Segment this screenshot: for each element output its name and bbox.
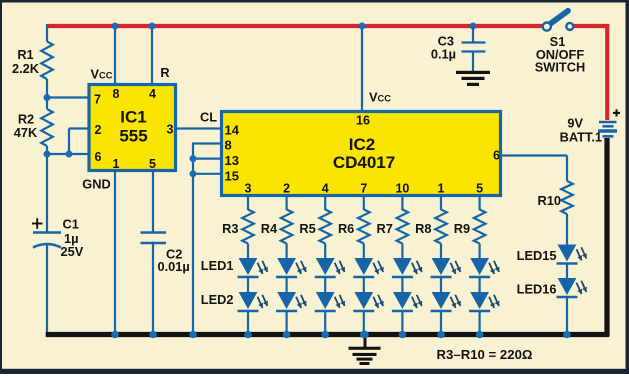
- svg-text:8: 8: [113, 87, 120, 101]
- label R6: [338, 221, 354, 236]
- wire LED16 to ground bus: [566, 297, 568, 334]
- node junction ground symbol: [361, 331, 369, 339]
- node junction pin8 on red rail: [112, 23, 119, 30]
- svg-text:1: 1: [438, 182, 445, 196]
- LED row1 col3: [315, 258, 345, 277]
- wire ground bus (black): [46, 332, 609, 337]
- label ON/OFF: [536, 47, 585, 62]
- LED row1 col4: [353, 258, 383, 277]
- wire left rail top (red rail to R1): [46, 24, 48, 42]
- resistor R1: [41, 42, 53, 80]
- capacitor C1 plus sign: [32, 218, 43, 229]
- svg-text:25V: 25V: [61, 244, 84, 259]
- pin 6 number: [95, 150, 102, 164]
- wire LED row1 to LED row2 col5: [401, 277, 403, 293]
- wire pin 3 of IC1 to pin 14 of IC2 (CL): [175, 127, 222, 129]
- svg-text:R9: R9: [454, 221, 470, 236]
- wire pin 15 of IC2 stub: [193, 173, 222, 175]
- svg-text:CD4017: CD4017: [333, 153, 395, 172]
- wire R6 to LED row1: [363, 244, 365, 260]
- label R9: [454, 221, 470, 236]
- label R1 value: [12, 47, 40, 76]
- node junction on ground bus x=248: [244, 331, 252, 339]
- node junction pin16 on red rail: [359, 23, 366, 30]
- node junction on ground bus x=441: [437, 331, 445, 339]
- wire IC2 pin 7 to R6: [363, 195, 365, 210]
- resistor R10: [561, 181, 573, 214]
- resistor R2: [41, 109, 53, 146]
- wire pin 2 of IC1: [69, 129, 88, 156]
- LED15: [557, 245, 587, 264]
- node junction R1/R2/pin7: [44, 94, 51, 101]
- resistor R3: [242, 210, 254, 244]
- pin 2 number: [95, 123, 102, 137]
- label 555: [119, 127, 147, 146]
- svg-text:R5: R5: [299, 221, 315, 236]
- wire battery negative to ground bus (black): [604, 138, 609, 337]
- svg-text:4: 4: [149, 87, 156, 101]
- LED row2 col1: [238, 292, 268, 311]
- svg-text:5: 5: [149, 157, 156, 171]
- wire IC2 pin 5 to R9: [479, 195, 481, 210]
- LED row2 col2: [276, 292, 306, 311]
- pin 16 number: [356, 114, 370, 128]
- node junction on ground bus x=115: [111, 331, 119, 339]
- svg-text:CL: CL: [200, 110, 217, 125]
- label R3-R10 = 220 ohm: [437, 347, 533, 362]
- LED row1 col7: [469, 258, 499, 277]
- node junction on ground bus x=153: [149, 331, 157, 339]
- label 9V: [567, 116, 583, 131]
- pin 5 number: [149, 157, 156, 171]
- resistor R8: [435, 210, 447, 244]
- LED row1 col2: [276, 258, 306, 277]
- wire +V red top rail (left of S1): [47, 24, 543, 28]
- pin 3 number IC2 bottom: [245, 182, 252, 196]
- wire LED row2 to ground bus col3: [324, 311, 326, 334]
- wire LED row2 to ground bus col2: [286, 311, 288, 334]
- pin 3 number: [167, 123, 174, 137]
- node junction pin2 wire on pin6 wire: [66, 151, 73, 158]
- wire +V red rail (S1 to battery corner): [574, 24, 610, 120]
- node junction C3 on red rail: [470, 23, 477, 30]
- svg-text:4: 4: [322, 182, 329, 196]
- svg-text:9V: 9V: [567, 116, 583, 131]
- label LED2: [201, 292, 234, 307]
- label C1 value: [61, 217, 84, 260]
- LED row2 col7: [469, 292, 499, 311]
- pin 1 number: [113, 157, 120, 171]
- wire LED row2 to ground bus col6: [440, 311, 442, 334]
- op-amp IC2 CD4017 box: [222, 112, 501, 196]
- svg-text:R8: R8: [415, 221, 431, 236]
- wire LED row1 to LED row2 col3: [324, 277, 326, 293]
- svg-text:7: 7: [94, 93, 101, 107]
- svg-text:15: 15: [225, 169, 239, 184]
- wire LED row2 to ground bus col4: [363, 311, 365, 334]
- node junction on ground bus x=286.6: [283, 331, 291, 339]
- svg-text:1: 1: [113, 157, 120, 171]
- svg-text:555: 555: [119, 127, 147, 146]
- svg-text:LED16: LED16: [517, 282, 557, 297]
- LED16: [557, 278, 587, 297]
- resistor R5: [319, 210, 331, 244]
- svg-text:3: 3: [245, 182, 252, 196]
- capacitor C1: [33, 233, 61, 248]
- wire IC2 pin 10 to R7: [401, 195, 403, 210]
- svg-text:6: 6: [493, 149, 500, 163]
- pin 6 number IC2: [493, 149, 500, 163]
- label IC2: [349, 135, 375, 154]
- label R10: [538, 193, 561, 208]
- pin 13 number: [225, 153, 239, 168]
- LED row2 col5: [392, 292, 422, 311]
- wire R8 to LED row1: [440, 244, 442, 260]
- wire R1 bottom to R2 top: [46, 79, 48, 109]
- svg-text:R: R: [160, 65, 169, 80]
- resistor R6: [358, 210, 370, 244]
- LED row1 col6: [431, 258, 461, 277]
- label R reset IC1: [160, 65, 169, 80]
- label R5: [299, 221, 315, 236]
- wire C3 to ground symbol: [472, 52, 474, 72]
- op-amp IC1 555 box: [89, 85, 176, 171]
- resistor R7: [397, 210, 409, 244]
- battery BATT.1 plus sign: [613, 109, 620, 116]
- battery BATT.1: [598, 122, 617, 136]
- svg-text:14: 14: [225, 123, 240, 138]
- label LED16: [517, 282, 557, 297]
- LED row2 col3: [315, 292, 345, 311]
- svg-text:16: 16: [356, 114, 370, 128]
- wire C1 to ground bus: [46, 245, 48, 334]
- svg-text:IC2: IC2: [349, 135, 375, 154]
- svg-text:R1: R1: [17, 47, 33, 62]
- wire IC2 pin 2 to R4: [286, 195, 288, 210]
- node junction R2/pin6/C1: [44, 151, 51, 158]
- capacitor C3: [462, 43, 486, 52]
- wire LED15 to LED16: [566, 264, 568, 280]
- node junction pin4 on red rail: [149, 23, 156, 30]
- wire pin 16 stub to red rail: [361, 26, 363, 112]
- label R7: [377, 221, 393, 236]
- wire LED row1 to LED row2 col6: [440, 277, 442, 293]
- svg-text:LED15: LED15: [517, 248, 557, 263]
- wire R3 to LED row1: [247, 244, 249, 260]
- pin 8 number IC2: [225, 138, 232, 153]
- svg-text:5: 5: [476, 182, 483, 196]
- svg-text:3: 3: [167, 123, 174, 137]
- capacitor C2: [141, 233, 167, 244]
- wire LED row1 to LED row2 col7: [479, 277, 481, 293]
- label C2 value: [158, 247, 190, 275]
- node junction on ground bus x=193: [189, 331, 197, 339]
- wire LED row1 to LED row2 col1: [247, 277, 249, 293]
- label SWITCH: [535, 60, 585, 75]
- svg-text:R10: R10: [538, 193, 561, 208]
- wire pin 6 of IC1: [47, 153, 88, 155]
- pin 4 number IC2 bottom: [322, 182, 329, 196]
- svg-text:8: 8: [225, 138, 232, 153]
- LED row2 col6: [431, 292, 461, 311]
- wire LED row1 to LED row2 col2: [286, 277, 288, 293]
- wire pin 6 of IC2 to R10: [499, 156, 567, 182]
- svg-text:LED2: LED2: [201, 292, 234, 307]
- svg-text:SWITCH: SWITCH: [535, 60, 585, 75]
- label R2 value: [14, 111, 38, 139]
- label GND: [82, 177, 110, 192]
- svg-text:2: 2: [95, 123, 102, 137]
- label S1: [550, 34, 566, 49]
- node junction on ground bus x=325.2: [321, 331, 329, 339]
- label BATT.1: [560, 130, 602, 145]
- node junction on ground bus x=479.6: [476, 331, 484, 339]
- svg-text:BATT.1: BATT.1: [560, 130, 602, 145]
- pin 15 number: [225, 169, 239, 184]
- wire IC2 pin 1 to R8: [440, 195, 442, 210]
- label Vcc IC1: [91, 67, 113, 82]
- svg-text:R6: R6: [338, 221, 354, 236]
- ground (top, at C3): [456, 71, 490, 86]
- switch S1: [543, 11, 574, 31]
- wire LED row2 to ground bus col5: [401, 311, 403, 334]
- wire pin 7 of IC1: [47, 96, 88, 98]
- node junction on ground bus x=363.8: [360, 331, 368, 339]
- wire R7 to LED row1: [401, 244, 403, 260]
- pin 4 number: [149, 87, 156, 101]
- svg-text:0.1µ: 0.1µ: [431, 47, 456, 62]
- wire LED row2 to ground bus col1: [247, 311, 249, 334]
- label LED1: [201, 258, 234, 273]
- pin 10 number IC2 bottom: [395, 182, 409, 196]
- node junction pin13: [190, 155, 197, 162]
- wire pin 13 of IC2 stub: [193, 158, 222, 160]
- node junction on ground bus x=402.4: [399, 331, 407, 339]
- label C3 value: [431, 34, 456, 62]
- wire R9 to LED row1: [479, 244, 481, 260]
- svg-text:6: 6: [95, 150, 102, 164]
- wire R2 bottom to C1: [46, 146, 48, 233]
- resistor R9: [474, 210, 486, 244]
- wire R10 to LED15: [566, 214, 568, 245]
- wire pins 8/13/15 common to ground bus: [192, 143, 194, 335]
- wire IC2 pin 4 to R5: [324, 195, 326, 210]
- label R8: [415, 221, 431, 236]
- pin 7 number: [94, 93, 101, 107]
- pin 2 number IC2 bottom: [283, 182, 290, 196]
- wire pin 8 of IC2 stub: [193, 142, 222, 144]
- svg-text:7: 7: [360, 182, 367, 196]
- wire pin 8 stub to red rail: [114, 26, 116, 85]
- svg-text:2: 2: [283, 182, 290, 196]
- wire R4 to LED row1: [286, 244, 288, 260]
- wire C3 stub: [472, 26, 474, 42]
- wire pin 5 of IC1 to C2: [152, 170, 154, 233]
- label CL: [200, 110, 217, 125]
- svg-text:LED1: LED1: [201, 258, 234, 273]
- wire LED row1 to LED row2 col4: [363, 277, 365, 293]
- svg-text:R3: R3: [222, 221, 238, 236]
- wire R5 to LED row1: [324, 244, 326, 260]
- label R3: [222, 221, 238, 236]
- svg-text:GND: GND: [82, 177, 110, 192]
- svg-text:C1: C1: [63, 217, 79, 232]
- svg-text:R7: R7: [377, 221, 393, 236]
- svg-text:2.2K: 2.2K: [12, 61, 40, 76]
- pin 8 number: [113, 87, 120, 101]
- pin 5 number IC2 bottom: [476, 182, 483, 196]
- svg-text:13: 13: [225, 153, 239, 168]
- svg-text:R4: R4: [261, 221, 278, 236]
- label IC1: [120, 108, 146, 127]
- pin 7 number IC2 bottom: [360, 182, 367, 196]
- wire LED row2 to ground bus col7: [479, 311, 481, 334]
- wire pin 1 of IC1 to ground bus: [114, 170, 116, 334]
- pin 14 number: [225, 123, 240, 138]
- LED row1 col1: [238, 258, 268, 277]
- node junction on ground bus x=567: [563, 331, 571, 339]
- svg-text:0.01µ: 0.01µ: [158, 259, 190, 274]
- LED row1 col5: [392, 258, 422, 277]
- svg-text:IC1: IC1: [120, 108, 146, 127]
- resistor R4: [281, 210, 293, 244]
- wire C2 to ground bus: [152, 242, 154, 334]
- svg-text:10: 10: [395, 182, 409, 196]
- label Vcc IC2: [369, 90, 391, 105]
- wire pin 4 stub to red rail: [151, 26, 153, 85]
- label CD4017: [333, 153, 395, 172]
- label R4: [261, 221, 278, 236]
- pin 1 number IC2 bottom: [438, 182, 445, 196]
- svg-text:47K: 47K: [14, 125, 38, 140]
- ground (bottom center): [349, 336, 381, 365]
- label LED15: [517, 248, 557, 263]
- LED row2 col4: [353, 292, 383, 311]
- node junction pin15: [190, 170, 197, 177]
- svg-text:R3–R10 = 220Ω: R3–R10 = 220Ω: [437, 347, 533, 362]
- wire IC2 pin 3 to R3: [247, 195, 249, 210]
